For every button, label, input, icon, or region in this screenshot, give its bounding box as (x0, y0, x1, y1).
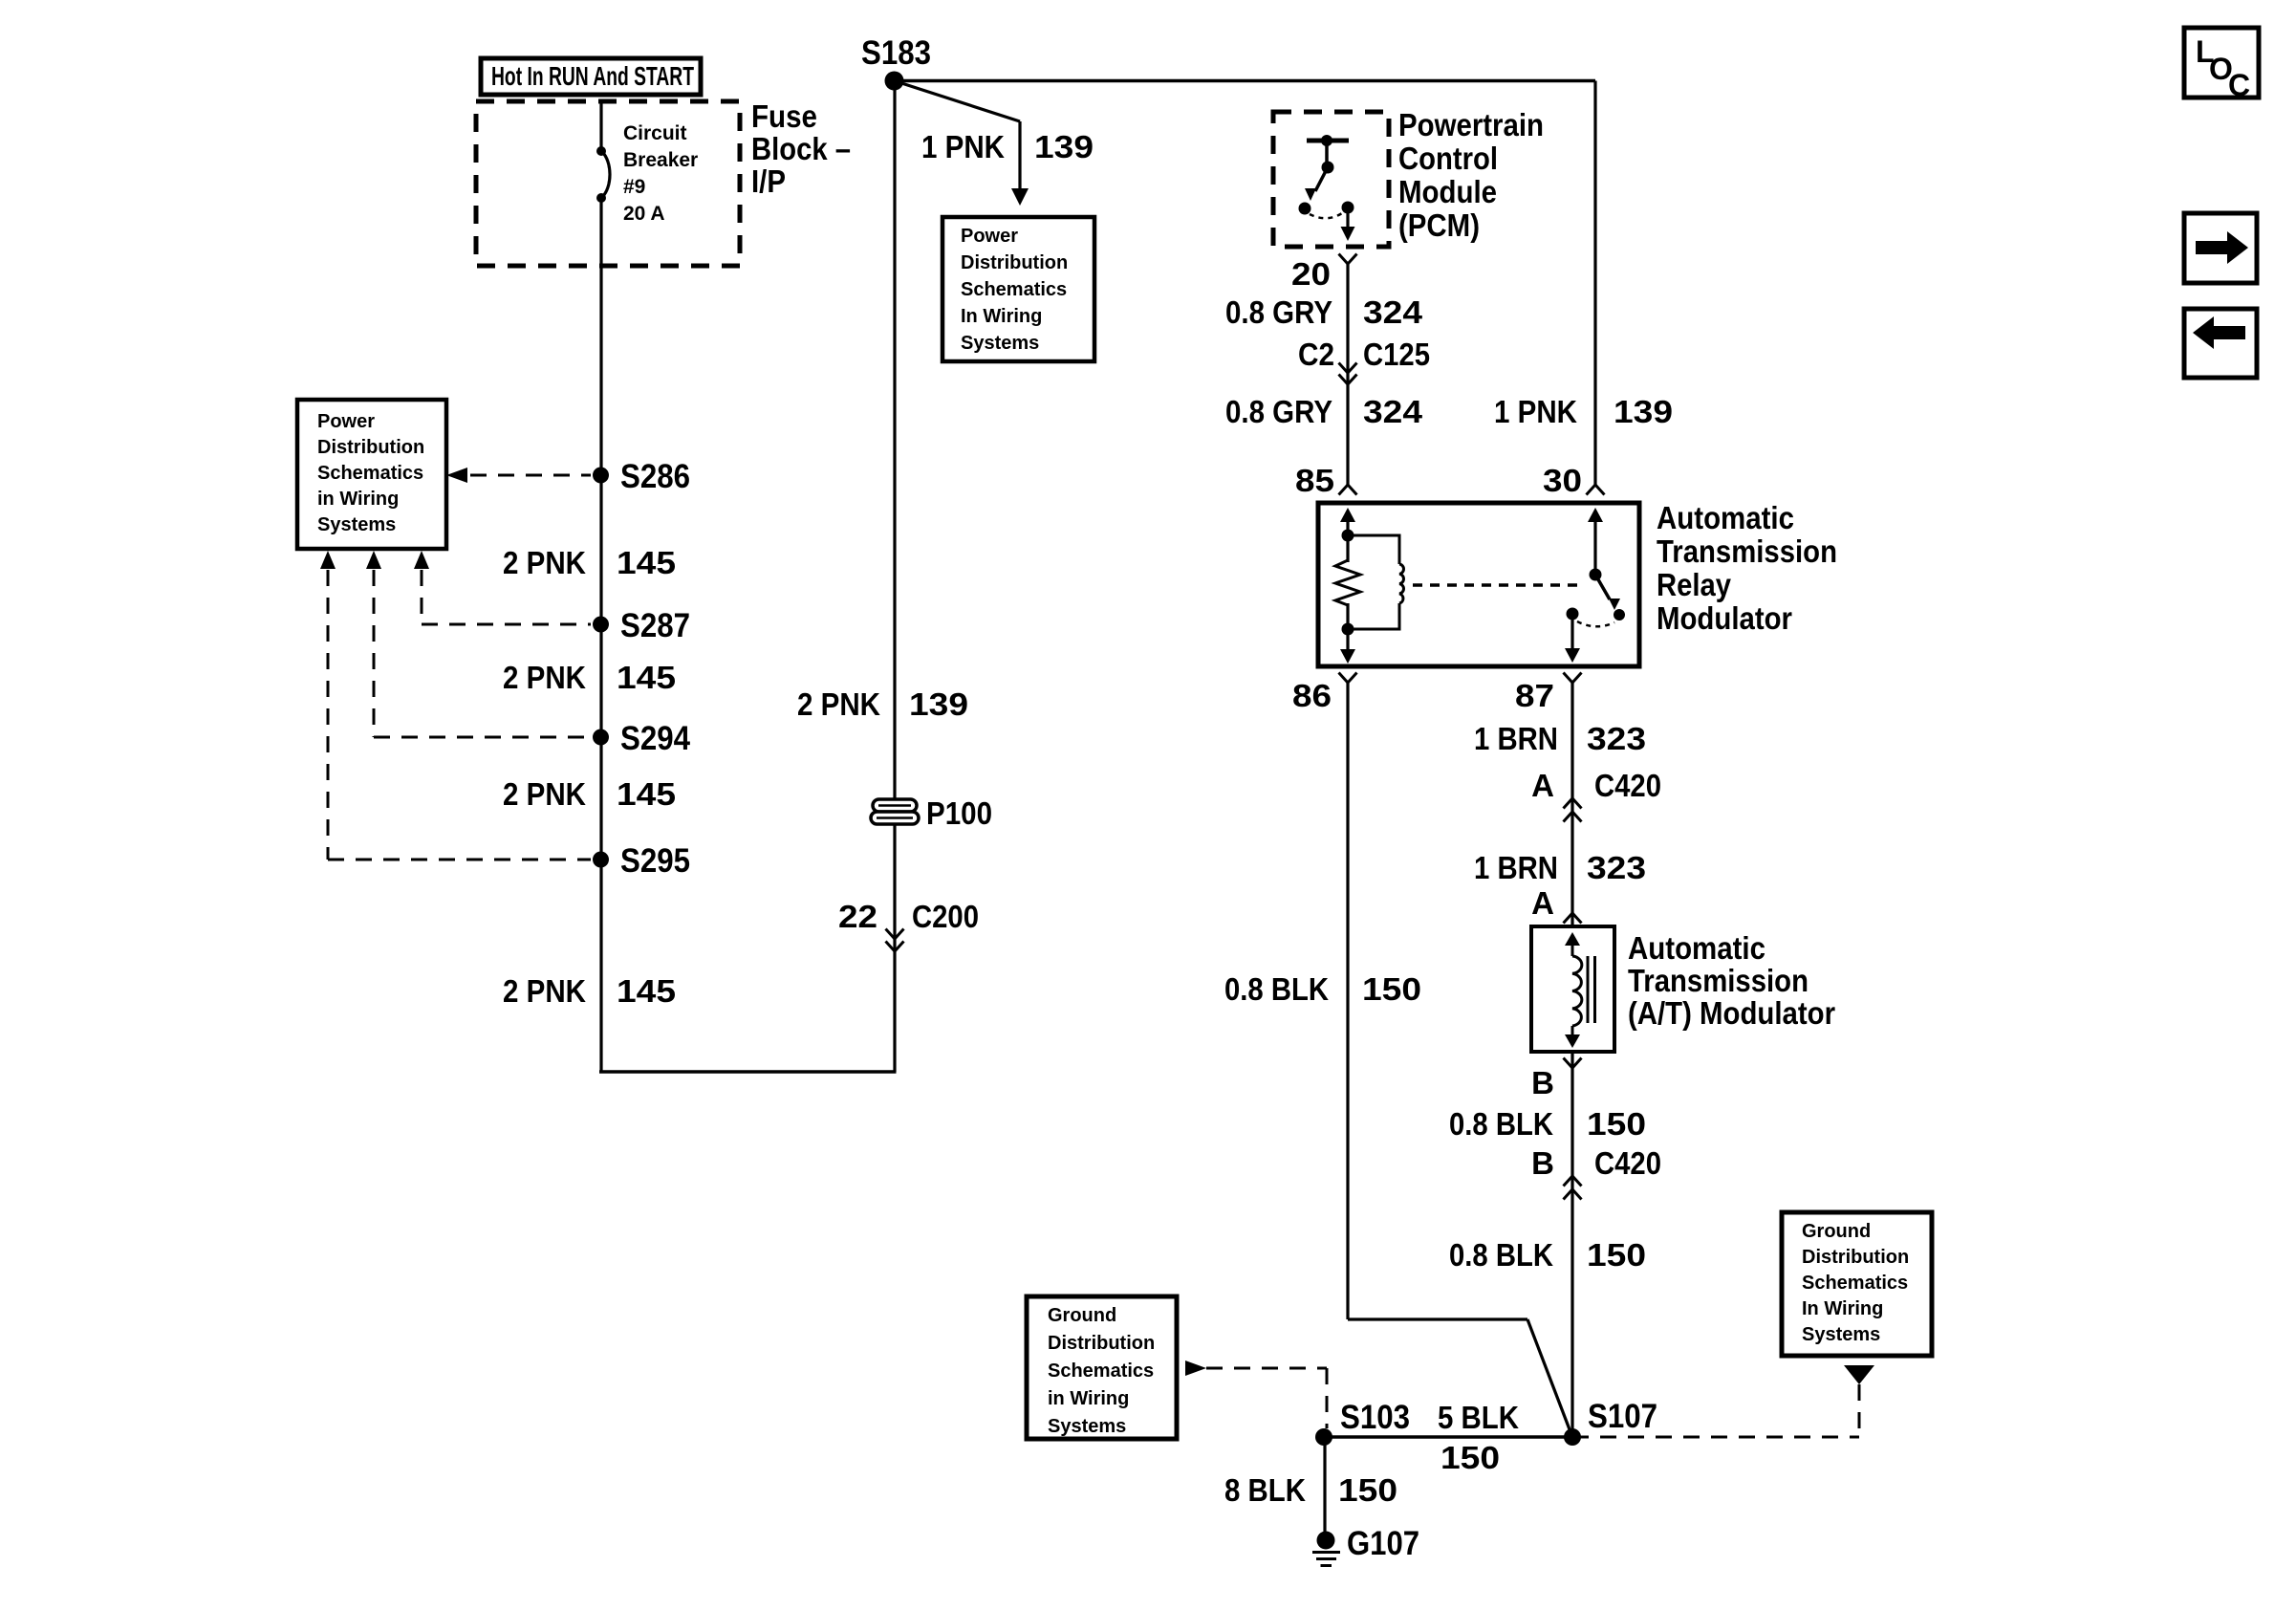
svg-text:B: B (1531, 1065, 1554, 1100)
svg-text:Systems: Systems (1802, 1324, 1880, 1345)
svg-text:2 PNK: 2 PNK (503, 660, 586, 695)
svg-text:85: 85 (1295, 463, 1334, 498)
svg-text:20 A: 20 A (623, 203, 665, 225)
svg-text:S295: S295 (620, 842, 690, 880)
svg-text:139: 139 (1614, 394, 1673, 429)
svg-text:1 PNK: 1 PNK (1494, 394, 1577, 429)
svg-text:86: 86 (1292, 678, 1332, 713)
svg-text:Schematics: Schematics (961, 279, 1067, 300)
svg-text:323: 323 (1587, 721, 1646, 756)
svg-text:Modulator: Modulator (1657, 600, 1792, 636)
svg-text:Automatic: Automatic (1657, 500, 1794, 535)
svg-text:87: 87 (1515, 678, 1554, 713)
svg-text:S286: S286 (620, 458, 690, 495)
svg-text:324: 324 (1363, 294, 1423, 330)
svg-text:C125: C125 (1363, 337, 1430, 372)
svg-text:2 PNK: 2 PNK (797, 686, 880, 722)
svg-text:Block –: Block – (751, 131, 851, 166)
svg-text:S107: S107 (1588, 1398, 1657, 1435)
svg-text:Module: Module (1398, 174, 1497, 209)
svg-text:0.8 BLK: 0.8 BLK (1449, 1237, 1553, 1273)
svg-text:1 BRN: 1 BRN (1474, 850, 1558, 885)
svg-text:A: A (1531, 885, 1554, 921)
svg-text:139: 139 (909, 686, 968, 722)
svg-text:Schematics: Schematics (1048, 1361, 1154, 1382)
svg-text:30: 30 (1543, 463, 1582, 498)
svg-text:Power: Power (317, 411, 375, 432)
svg-text:2 PNK: 2 PNK (503, 545, 586, 580)
svg-text:C2: C2 (1298, 337, 1334, 372)
svg-text:145: 145 (617, 776, 676, 812)
svg-text:B: B (1531, 1145, 1554, 1181)
svg-text:Hot In RUN And START: Hot In RUN And START (491, 61, 694, 91)
svg-text:I/P: I/P (751, 163, 786, 199)
svg-text:C200: C200 (912, 899, 979, 934)
svg-text:0.8 BLK: 0.8 BLK (1449, 1106, 1553, 1142)
svg-text:0.8 BLK: 0.8 BLK (1224, 971, 1329, 1007)
svg-text:150: 150 (1338, 1472, 1397, 1508)
svg-text:Distribution: Distribution (1802, 1247, 1909, 1268)
svg-text:150: 150 (1587, 1106, 1646, 1142)
svg-text:In Wiring: In Wiring (1802, 1298, 1883, 1319)
svg-text:Breaker: Breaker (623, 149, 698, 171)
svg-text:0.8 GRY: 0.8 GRY (1225, 294, 1332, 330)
svg-text:C420: C420 (1594, 1145, 1661, 1181)
svg-text:139: 139 (1034, 129, 1094, 164)
svg-text:in Wiring: in Wiring (317, 489, 399, 510)
svg-text:150: 150 (1440, 1440, 1500, 1475)
svg-text:324: 324 (1363, 394, 1423, 429)
svg-text:S287: S287 (620, 607, 690, 644)
svg-text:Circuit: Circuit (623, 122, 687, 144)
svg-text:8 BLK: 8 BLK (1224, 1472, 1306, 1508)
svg-text:145: 145 (617, 973, 676, 1009)
svg-text:G107: G107 (1347, 1525, 1419, 1562)
svg-text:323: 323 (1587, 850, 1646, 885)
svg-text:Distribution: Distribution (317, 437, 424, 458)
svg-text:Control: Control (1398, 141, 1498, 176)
svg-text:A: A (1531, 768, 1554, 803)
svg-text:2 PNK: 2 PNK (503, 973, 586, 1009)
svg-text:Fuse: Fuse (751, 98, 817, 134)
svg-text:S294: S294 (620, 720, 690, 757)
svg-text:Relay: Relay (1657, 567, 1732, 602)
svg-text:1 BRN: 1 BRN (1474, 721, 1558, 756)
svg-text:C420: C420 (1594, 768, 1661, 803)
svg-text:S183: S183 (861, 34, 931, 72)
svg-text:In Wiring: In Wiring (961, 306, 1042, 327)
svg-text:5 BLK: 5 BLK (1438, 1400, 1519, 1435)
svg-text:145: 145 (617, 545, 676, 580)
svg-text:C: C (2228, 68, 2250, 102)
svg-text:150: 150 (1362, 971, 1421, 1007)
svg-text:P100: P100 (926, 795, 992, 831)
svg-text:Schematics: Schematics (317, 463, 423, 484)
svg-text:Transmission: Transmission (1657, 533, 1837, 569)
svg-text:(PCM): (PCM) (1398, 207, 1480, 243)
svg-text:Schematics: Schematics (1802, 1273, 1908, 1294)
svg-text:145: 145 (617, 660, 676, 695)
svg-text:Systems: Systems (1048, 1416, 1126, 1437)
svg-text:150: 150 (1587, 1237, 1646, 1273)
svg-text:Transmission: Transmission (1628, 963, 1809, 998)
svg-text:(A/T) Modulator: (A/T) Modulator (1628, 995, 1835, 1031)
svg-text:Ground: Ground (1802, 1221, 1871, 1242)
svg-text:Power: Power (961, 226, 1018, 247)
svg-text:Automatic: Automatic (1628, 930, 1765, 966)
svg-text:0.8 GRY: 0.8 GRY (1225, 394, 1332, 429)
svg-text:1 PNK: 1 PNK (921, 129, 1005, 164)
svg-text:Ground: Ground (1048, 1305, 1116, 1326)
svg-text:20: 20 (1291, 256, 1331, 292)
svg-text:Systems: Systems (961, 333, 1039, 354)
svg-text:Distribution: Distribution (1048, 1333, 1155, 1354)
svg-text:S103: S103 (1340, 1399, 1410, 1436)
svg-text:#9: #9 (623, 176, 645, 198)
svg-text:22: 22 (838, 899, 877, 934)
svg-text:Distribution: Distribution (961, 252, 1068, 273)
svg-text:2 PNK: 2 PNK (503, 776, 586, 812)
svg-text:Systems: Systems (317, 514, 396, 535)
svg-text:Powertrain: Powertrain (1398, 107, 1544, 142)
svg-text:in Wiring: in Wiring (1048, 1388, 1129, 1409)
